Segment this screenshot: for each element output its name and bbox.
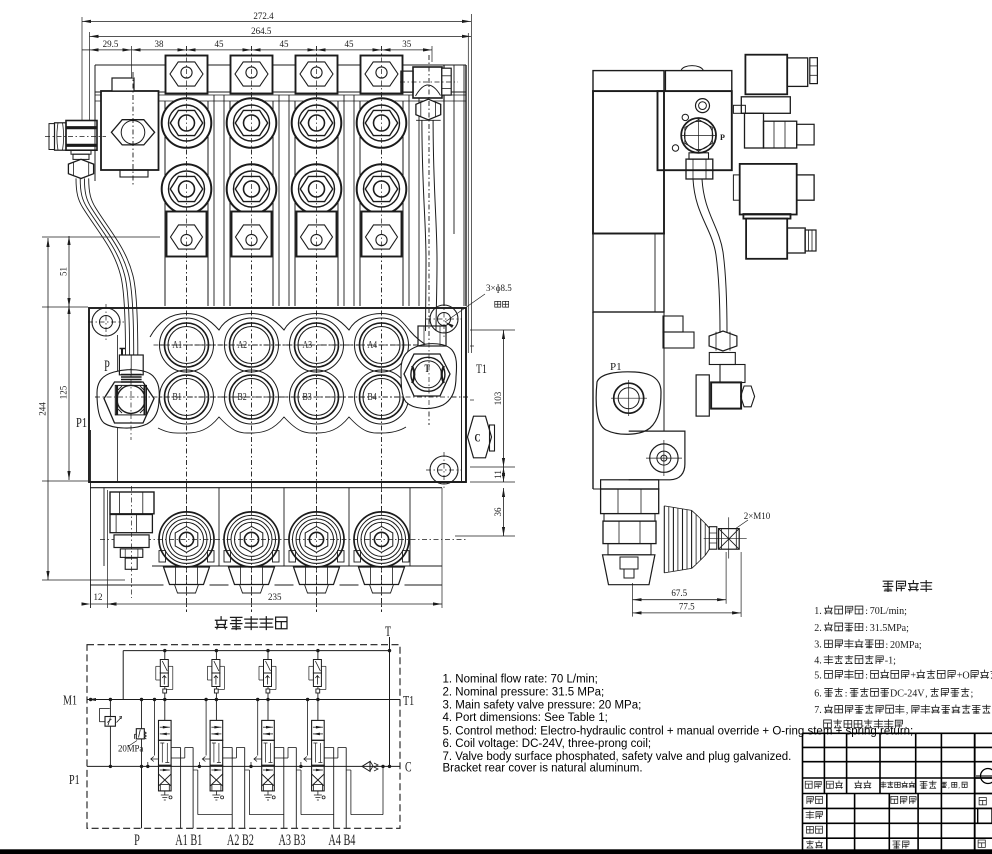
svg-text:77.5: 77.5 bbox=[679, 602, 695, 612]
svg-text:M: M bbox=[900, 640, 909, 651]
svg-text:2.: 2. bbox=[814, 623, 822, 634]
svg-text:,: , bbox=[906, 705, 908, 716]
svg-text:4.: 4. bbox=[814, 656, 822, 667]
svg-text:P: P bbox=[720, 133, 725, 142]
svg-text:235: 235 bbox=[268, 592, 282, 602]
svg-text:P1: P1 bbox=[610, 361, 622, 373]
svg-text:A2 B2: A2 B2 bbox=[227, 831, 254, 849]
svg-text:A3 B3: A3 B3 bbox=[278, 831, 305, 849]
svg-text:A3: A3 bbox=[303, 340, 313, 351]
svg-text:51: 51 bbox=[59, 267, 69, 276]
svg-text:M: M bbox=[887, 623, 896, 634]
svg-text:.: . bbox=[905, 720, 907, 731]
svg-text:O: O bbox=[962, 670, 969, 681]
svg-text:B2: B2 bbox=[238, 392, 247, 403]
svg-text:;: ; bbox=[971, 688, 974, 699]
svg-text::: : bbox=[886, 640, 889, 651]
svg-text:A2: A2 bbox=[238, 340, 248, 351]
svg-text:264.5: 264.5 bbox=[251, 26, 272, 36]
svg-text:45: 45 bbox=[345, 39, 355, 49]
svg-text:6.: 6. bbox=[814, 688, 822, 699]
svg-text:29.5: 29.5 bbox=[103, 39, 119, 49]
svg-text:5. Control method: Electro-hyd: 5. Control method: Electro-hydraulic con… bbox=[443, 726, 914, 738]
svg-text:6. Coil voltage: DC-24V, three: 6. Coil voltage: DC-24V, three-prong coi… bbox=[443, 738, 652, 750]
svg-text:A4: A4 bbox=[368, 340, 378, 351]
svg-text:Bracket rear cover is natural: Bracket rear cover is natural aluminum. bbox=[443, 763, 643, 775]
svg-text:3.: 3. bbox=[814, 640, 822, 651]
svg-text:38: 38 bbox=[155, 39, 165, 49]
svg-text:4. Port dimensions: See Table: 4. Port dimensions: See Table 1; bbox=[443, 712, 608, 724]
svg-text:C: C bbox=[405, 759, 412, 776]
svg-text:12: 12 bbox=[94, 592, 103, 602]
svg-text:125: 125 bbox=[59, 385, 69, 399]
svg-text:67.5: 67.5 bbox=[671, 588, 687, 598]
svg-text:P1: P1 bbox=[76, 415, 87, 431]
svg-text:B4: B4 bbox=[368, 392, 377, 403]
svg-text:P: P bbox=[134, 831, 140, 849]
svg-text:272.4: 272.4 bbox=[253, 11, 274, 21]
svg-text:V: V bbox=[917, 688, 925, 699]
svg-text:2×M10: 2×M10 bbox=[744, 511, 771, 521]
svg-text:T1: T1 bbox=[403, 692, 414, 708]
svg-text:P1: P1 bbox=[69, 771, 80, 787]
svg-text:+: + bbox=[910, 670, 916, 681]
svg-text:;: ; bbox=[906, 623, 909, 634]
svg-text:2. Nominal pressure: 31.5 MPa;: 2. Nominal pressure: 31.5 MPa; bbox=[443, 687, 605, 699]
svg-text:1. Nominal flow rate: 70 L/min: 1. Nominal flow rate: 70 L/min; bbox=[443, 674, 598, 686]
svg-text:;: ; bbox=[919, 640, 922, 651]
svg-text:45: 45 bbox=[215, 39, 225, 49]
svg-text:7. Valve body surface phosphat: 7. Valve body surface phosphated, safety… bbox=[443, 751, 792, 763]
svg-text:T1: T1 bbox=[476, 363, 487, 377]
svg-text:B1: B1 bbox=[173, 392, 182, 403]
svg-text:,: , bbox=[925, 688, 927, 699]
svg-text:;: ; bbox=[893, 656, 896, 667]
svg-text:B3: B3 bbox=[303, 392, 312, 403]
svg-text:P: P bbox=[104, 357, 110, 375]
svg-text:3. Main safety valve pressure:: 3. Main safety valve pressure: 20 MPa; bbox=[443, 699, 642, 711]
svg-text:1.: 1. bbox=[814, 606, 822, 617]
svg-text:45: 45 bbox=[280, 39, 290, 49]
svg-text:244: 244 bbox=[38, 402, 48, 416]
svg-text::: : bbox=[865, 670, 868, 681]
svg-text:a: a bbox=[139, 743, 143, 753]
svg-text:A1 B1: A1 B1 bbox=[175, 831, 202, 849]
svg-text:103: 103 bbox=[493, 391, 503, 405]
svg-text:35: 35 bbox=[402, 39, 412, 49]
svg-text:5.: 5. bbox=[814, 670, 822, 681]
svg-text:D: D bbox=[890, 688, 897, 699]
svg-text:M1: M1 bbox=[63, 692, 77, 708]
svg-text::: : bbox=[865, 606, 868, 617]
svg-text:A4 B4: A4 B4 bbox=[328, 831, 355, 849]
svg-text::: : bbox=[865, 623, 868, 634]
svg-text:C: C bbox=[475, 432, 481, 445]
svg-text:36: 36 bbox=[493, 507, 503, 517]
svg-text:11: 11 bbox=[493, 470, 503, 479]
svg-text:;: ; bbox=[904, 606, 907, 617]
svg-text:T: T bbox=[385, 623, 391, 640]
svg-text:7.: 7. bbox=[814, 705, 822, 716]
svg-text:3×ɸ8.5: 3×ɸ8.5 bbox=[486, 283, 512, 293]
svg-text:A1: A1 bbox=[173, 340, 183, 351]
svg-text::: : bbox=[845, 688, 848, 699]
